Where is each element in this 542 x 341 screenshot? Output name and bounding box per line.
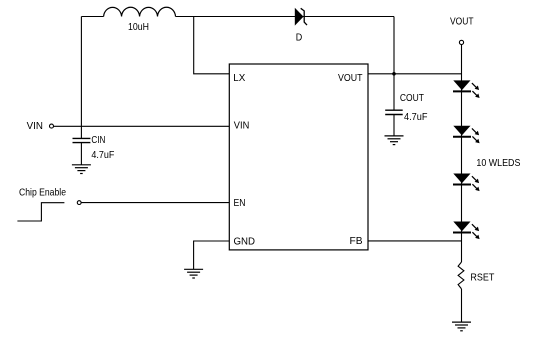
ground (IC GND) [184, 269, 203, 278]
LED D1 [453, 80, 480, 98]
ground (RSET) [452, 322, 471, 331]
svg-text:CIN: CIN [91, 134, 105, 146]
wire LX branch [194, 17, 230, 74]
wire input vertical (VIN node) [80, 17, 82, 139]
svg-text:10uH: 10uH [128, 21, 149, 33]
wire COUT drop [393, 74, 395, 110]
terminal VIN [50, 124, 54, 128]
svg-text:4.7uF: 4.7uF [91, 149, 114, 161]
ground (COUT) [385, 136, 404, 145]
wire LED string [461, 45, 463, 263]
svg-text:FB: FB [350, 235, 363, 247]
svg-text:LX: LX [233, 72, 245, 84]
terminal VOUT [459, 40, 463, 44]
inductor L 10uH [104, 7, 176, 16]
svg-text:D: D [296, 32, 303, 44]
wire top rail left [81, 16, 103, 18]
wire COUT to ground [393, 115, 395, 136]
capacitor COUT [385, 110, 403, 114]
IC U1 [229, 64, 368, 250]
ground (CIN) [72, 165, 91, 174]
terminal EN [77, 201, 81, 205]
wire right drop to VOUT node [393, 17, 395, 74]
wire EN [81, 202, 229, 204]
wire GND pin to ground [194, 241, 230, 269]
svg-text:VOUT: VOUT [338, 72, 363, 84]
svg-text:Chip Enable: Chip Enable [19, 186, 66, 198]
LED D2 [453, 126, 480, 144]
svg-text:VOUT: VOUT [450, 16, 474, 28]
enable step waveform [17, 203, 64, 221]
wire FB [368, 240, 462, 242]
wire VOUT pin to LED string [368, 73, 462, 75]
svg-text:4.7uF: 4.7uF [404, 111, 428, 123]
LED D3 [453, 174, 480, 192]
svg-text:10 WLEDS: 10 WLEDS [476, 157, 520, 169]
resistor RSET [458, 262, 464, 289]
svg-text:COUT: COUT [400, 92, 424, 104]
wire CIN to ground [80, 143, 82, 165]
capacitor CIN [73, 138, 91, 142]
node VOUT junction [392, 72, 396, 76]
wire top rail right [176, 16, 395, 18]
wire RSET to ground [461, 289, 463, 322]
svg-text:EN: EN [234, 197, 246, 209]
svg-text:RSET: RSET [470, 271, 494, 283]
svg-text:VIN: VIN [27, 120, 43, 132]
svg-text:GND: GND [234, 235, 256, 247]
svg-text:VIN: VIN [234, 120, 250, 132]
wire VIN rail [54, 125, 230, 127]
diode D [295, 8, 307, 26]
LED D4 [453, 222, 480, 240]
